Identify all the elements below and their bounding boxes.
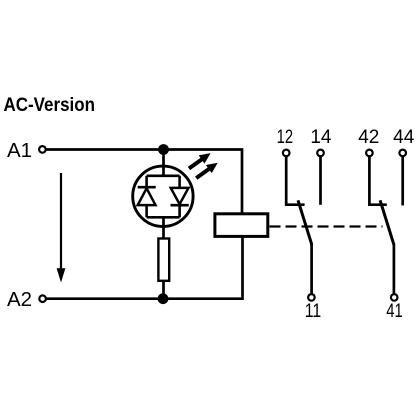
mechanical linkage (dashed) xyxy=(270,225,383,227)
wire A2 to coil bottom xyxy=(46,237,242,299)
wire terminal 12 NC stub xyxy=(286,156,304,205)
svg-text:A2: A2 xyxy=(7,288,32,311)
svg-text:41: 41 xyxy=(386,301,403,322)
svg-text:14: 14 xyxy=(310,127,332,148)
terminal 44 xyxy=(393,127,415,156)
wire terminal 14 NO xyxy=(319,156,322,205)
resistor R1 xyxy=(158,239,169,281)
wire bridge to resistor xyxy=(162,217,165,238)
node A1 xyxy=(7,139,46,162)
contact lever 11-12 xyxy=(298,200,312,244)
svg-text:44: 44 xyxy=(393,127,415,148)
diode D1 (left, cathode up) xyxy=(138,176,156,218)
relay coil K1 xyxy=(215,214,268,237)
LED light emission arrows xyxy=(186,149,221,182)
wire terminal 44 NO xyxy=(401,156,404,205)
terminal 14 xyxy=(310,127,332,156)
wire bridge bottom rail xyxy=(147,216,180,219)
svg-text:11: 11 xyxy=(305,301,322,322)
wire resistor to A2 rail xyxy=(162,282,165,299)
wire lever to terminal 11 xyxy=(310,244,313,294)
current direction arrow xyxy=(57,173,66,283)
junction dot on A1 wire xyxy=(158,144,169,155)
wire junction to LED bridge xyxy=(162,150,165,177)
wire lever to terminal 41 xyxy=(393,244,396,294)
svg-text:AC-Version: AC-Version xyxy=(4,94,96,116)
svg-text:12: 12 xyxy=(277,127,294,148)
wire bridge top rail xyxy=(147,175,180,178)
terminal 12 xyxy=(277,127,294,156)
junction dot on A2 wire xyxy=(158,293,169,304)
node A2 xyxy=(7,288,46,311)
diode D2 (right, cathode down) xyxy=(171,176,189,218)
wire A1 to coil top xyxy=(46,150,242,214)
terminal 42 xyxy=(358,127,379,156)
svg-text:42: 42 xyxy=(358,127,379,148)
svg-text:A1: A1 xyxy=(7,139,32,162)
LED indicator circle D1 xyxy=(133,166,193,226)
wire terminal 42 NC stub xyxy=(369,156,386,205)
contact lever 41-42 xyxy=(380,200,394,244)
terminal 11 xyxy=(305,294,322,322)
terminal 41 xyxy=(386,294,403,322)
